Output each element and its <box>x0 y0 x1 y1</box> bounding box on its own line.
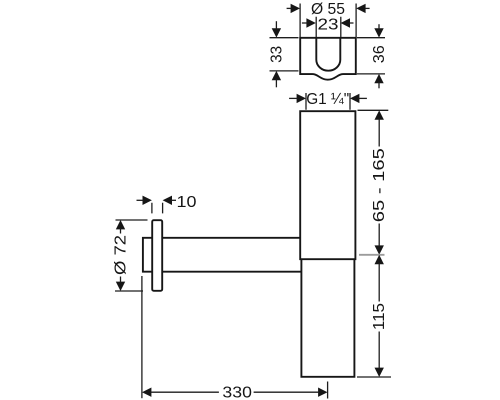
dimension 33 top arrow <box>272 28 281 37</box>
dimension 23 right arrow <box>341 18 350 27</box>
horizontal pipe <box>162 238 301 272</box>
dimension 10 right arrow <box>163 196 172 205</box>
dimension Ø72 line <box>120 228 122 282</box>
dimension Ø72 bottom arrow <box>116 282 125 291</box>
dimension Ø55 left arrow <box>291 4 300 13</box>
dimension Ø72 top arrow <box>116 220 125 229</box>
dimension 115 bottom extension line <box>357 376 391 378</box>
svg-text:33: 33 <box>268 46 285 63</box>
dimension G1 1/4 left arrow <box>297 94 306 103</box>
dimension 36 bottom arrow <box>374 74 383 83</box>
dimension 23 extension lines <box>316 17 341 37</box>
svg-text:23: 23 <box>318 17 339 34</box>
dimension 330 right arrow <box>318 388 327 397</box>
dimension 23 left arrow <box>306 18 315 27</box>
dimension 65-165 top extension line <box>358 109 389 111</box>
dimension 115 line <box>378 263 380 368</box>
wall bracket top view outline <box>300 38 356 80</box>
dimension 115 top arrow <box>375 255 384 264</box>
svg-text:65 - 165: 65 - 165 <box>371 148 388 222</box>
wall bracket U-shaped cutout <box>316 38 340 71</box>
svg-text:G1 ¼": G1 ¼" <box>306 91 349 108</box>
dimension 65-165 bottom arrow <box>375 245 384 254</box>
svg-text:10: 10 <box>177 194 197 211</box>
dimension Ø55 extension lines <box>300 4 356 38</box>
dimension 10 extension lines <box>152 203 163 214</box>
dimension 330 right extension line (body axis) <box>327 382 329 399</box>
wall stub pipe <box>143 238 152 272</box>
siphon lower body <box>301 260 354 377</box>
svg-text:115: 115 <box>371 303 388 330</box>
svg-text:Ø 55: Ø 55 <box>311 1 345 18</box>
dimension 33 bottom arrow <box>272 71 281 80</box>
telescopic joint gray extension line <box>359 254 385 256</box>
dimension 10 left arrow <box>143 196 152 205</box>
dimension Ø55 right arrow <box>356 4 365 13</box>
dimension 330 left arrow <box>142 388 151 397</box>
dimension 36 top arrow <box>374 28 383 37</box>
dimension G1 1/4 right arrow <box>350 94 359 103</box>
dimension 115 bottom arrow <box>375 368 384 377</box>
dimension Ø72 extension lines <box>115 220 148 291</box>
dimension 65-165 top arrow <box>375 110 384 119</box>
wall flange <box>152 220 162 291</box>
dimension G1 1/4 extension lines <box>306 93 350 110</box>
dimension 330 left extension line (wall plane) <box>141 276 143 398</box>
svg-text:Ø 72: Ø 72 <box>113 235 130 275</box>
dimension 65-165 line <box>378 119 380 247</box>
siphon outer tube <box>300 111 355 259</box>
dimension 36 extension lines <box>357 38 385 74</box>
dimension 330 line <box>150 391 319 393</box>
svg-text:330: 330 <box>222 385 252 400</box>
dimension 33 extension lines <box>270 38 299 71</box>
svg-text:36: 36 <box>371 45 388 63</box>
